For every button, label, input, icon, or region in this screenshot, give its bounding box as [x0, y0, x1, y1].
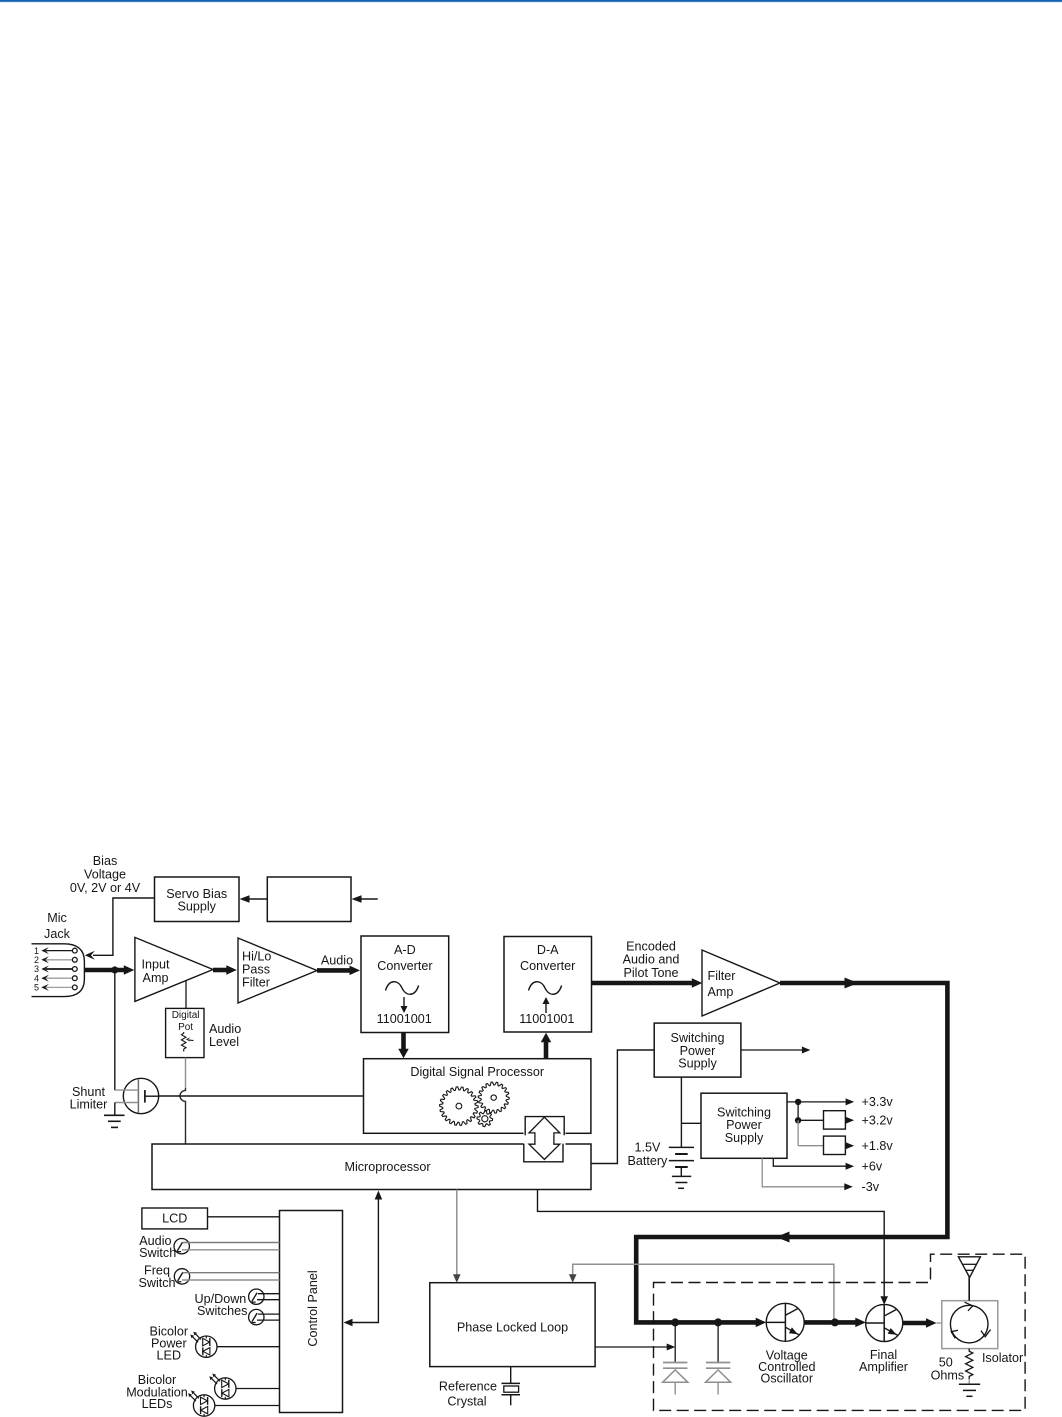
LCD box — [142, 1208, 208, 1229]
mic jack connector — [32, 944, 85, 997]
svg-text:Supply: Supply — [177, 900, 216, 914]
svg-text:Switching: Switching — [671, 1031, 725, 1045]
svg-text:+1.8v: +1.8v — [862, 1139, 894, 1153]
label Bias Voltage — [70, 854, 141, 895]
switch SW4 down — [249, 1309, 264, 1324]
svg-text:Oscillator: Oscillator — [761, 1371, 813, 1385]
thick wire hi/lo filter to A-D converter — [317, 966, 360, 976]
junction node at jack output — [111, 966, 118, 973]
svg-text:Voltage: Voltage — [84, 868, 126, 882]
mic jack pin 4 — [34, 973, 77, 983]
node junction varactor 1 — [671, 1318, 679, 1326]
crystal X1 wire — [510, 1367, 512, 1384]
svg-text:LED: LED — [157, 1348, 182, 1362]
PLL box Phase Locked Loop — [430, 1283, 595, 1367]
wire rail down to +1.8v row — [797, 1120, 799, 1145]
svg-text:Converter: Converter — [377, 959, 432, 973]
svg-text:-3v: -3v — [862, 1180, 880, 1194]
svg-text:Supply: Supply — [678, 1057, 717, 1071]
svg-text:Jack: Jack — [44, 927, 71, 941]
svg-text:Converter: Converter — [520, 959, 575, 973]
svg-text:Audio: Audio — [321, 954, 353, 968]
svg-text:+3.2v: +3.2v — [862, 1114, 894, 1128]
switching power supply 1 box — [654, 1023, 741, 1077]
svg-text:Crystal: Crystal — [447, 1395, 486, 1409]
varactor D2 — [706, 1322, 731, 1394]
svg-text:A-D: A-D — [394, 943, 416, 957]
gear 3 in DSP — [477, 1111, 493, 1127]
thick audio wire jack to input amp — [85, 965, 135, 975]
wire rail down to +3.2v row — [797, 1102, 799, 1120]
wire microprocessor to SPS1 — [591, 1050, 654, 1164]
svg-text:Supply: Supply — [725, 1131, 764, 1145]
svg-text:Switch: Switch — [138, 1276, 175, 1290]
wire shunt limiter to DSP — [159, 1095, 364, 1097]
svg-text:Level: Level — [209, 1035, 239, 1049]
label Encoded Audio and Pilot Tone — [623, 940, 680, 981]
arrowhead on RF wire (left) — [776, 1232, 790, 1243]
circulator circle in isolator — [950, 1302, 990, 1343]
svg-text:Isolator: Isolator — [982, 1351, 1023, 1365]
label Up/Down Switches — [195, 1292, 248, 1318]
varactor D1 — [663, 1322, 688, 1394]
svg-text:Amp: Amp — [143, 971, 169, 985]
svg-text:Hi/Lo: Hi/Lo — [242, 949, 271, 963]
isolator box — [942, 1301, 998, 1349]
svg-text:Ohms: Ohms — [931, 1369, 965, 1383]
svg-text:Audio: Audio — [209, 1022, 241, 1036]
DSP box Digital Signal Processor — [364, 1059, 591, 1134]
dashed RF module boundary — [654, 1254, 1026, 1410]
svg-text:Control Panel: Control Panel — [306, 1270, 320, 1346]
label 1.5V Battery — [627, 1141, 668, 1168]
wire +6v output — [773, 1158, 854, 1169]
bidirectional bus arrow DSP/microprocessor — [529, 1117, 560, 1159]
wire PLL to varactors — [595, 1344, 675, 1351]
transistor VCO — [766, 1303, 804, 1341]
svg-text:Pot: Pot — [178, 1022, 193, 1033]
node on +3.3v rail — [795, 1099, 801, 1105]
mic jack pin 1 — [34, 946, 77, 956]
svg-text:+6v: +6v — [862, 1159, 883, 1173]
wire into unnamed box — [352, 895, 378, 903]
label Audio Switch — [139, 1234, 176, 1260]
thick wire DSP to D-A converter — [541, 1033, 552, 1059]
battery B1 1.5V — [669, 1147, 694, 1176]
VCO feedback wire to PLL — [569, 1264, 834, 1322]
label Final Amplifier — [859, 1348, 908, 1374]
label Freq Switch — [138, 1264, 175, 1290]
wire +3.3v output — [787, 1098, 854, 1105]
LED modulation 1 — [209, 1374, 236, 1400]
wires freq switch to control panel — [182, 1273, 280, 1280]
digital pot box — [166, 1008, 204, 1057]
svg-text:LCD: LCD — [162, 1212, 187, 1226]
wire battery branch to SPS2 — [681, 1122, 701, 1124]
LED modulation 2 — [188, 1391, 215, 1417]
svg-text:Amp: Amp — [708, 985, 734, 999]
unnamed box — [267, 877, 351, 922]
svg-text:Battery: Battery — [627, 1154, 668, 1168]
label Voltage Controlled Oscillator — [758, 1349, 815, 1386]
antenna — [958, 1257, 980, 1301]
svg-text:Input: Input — [141, 958, 170, 972]
gear 2 in DSP — [478, 1082, 509, 1113]
mic jack pin 5 — [34, 983, 77, 993]
svg-text:0V, 2V or 4V: 0V, 2V or 4V — [70, 881, 141, 895]
bias wire servo supply to mic jack — [85, 898, 155, 960]
wire SPS1 output arrow — [741, 1047, 811, 1054]
label Bicolor Power LED — [150, 1325, 189, 1363]
wire modulation LED 2 to control panel — [215, 1405, 280, 1407]
op-amp Filter Amp — [702, 950, 780, 1016]
svg-text:Audio and: Audio and — [623, 953, 680, 967]
microprocessor box — [152, 1144, 591, 1190]
wire unnamed box to servo bias supply — [240, 895, 268, 903]
label Reference Crystal — [439, 1380, 497, 1409]
crystal X1 reference crystal — [502, 1383, 521, 1405]
header rule — [0, 0, 1062, 3]
svg-text:Amplifier: Amplifier — [859, 1360, 908, 1374]
svg-text:+3.3v: +3.3v — [862, 1095, 894, 1109]
svg-text:Power: Power — [726, 1118, 762, 1132]
thick wire input amp to hi/lo filter — [213, 965, 237, 975]
op-amp Input Amp — [135, 937, 213, 1001]
wire modulation LED 1 to control panel — [236, 1388, 280, 1390]
svg-text:Microprocessor: Microprocessor — [344, 1160, 430, 1174]
arrowhead into VCO — [756, 1318, 767, 1328]
wires down switch to control panel — [257, 1314, 280, 1320]
svg-text:Reference: Reference — [439, 1380, 497, 1394]
wire LCD to control panel — [208, 1216, 280, 1218]
svg-text:Digital Signal Processor: Digital Signal Processor — [410, 1065, 544, 1079]
svg-text:Phase Locked Loop: Phase Locked Loop — [457, 1321, 568, 1335]
svg-text:D-A: D-A — [537, 943, 559, 957]
node junction VCO output — [831, 1318, 839, 1326]
svg-text:Limiter: Limiter — [70, 1098, 108, 1112]
switch SW1 audio — [174, 1239, 189, 1254]
node on +3.2v row — [795, 1117, 801, 1123]
wire junction down to shunt limiter — [114, 970, 116, 1090]
svg-text:Switches: Switches — [197, 1304, 247, 1318]
LED bicolor power — [190, 1332, 217, 1358]
wire power LED to control panel — [217, 1346, 280, 1348]
arrowhead on RF wire (right) — [845, 978, 859, 989]
svg-text:Filter: Filter — [242, 975, 270, 989]
label Shunt Limiter — [70, 1085, 108, 1112]
wire input amp to digital pot — [185, 981, 187, 1009]
switch SW2 freq — [174, 1269, 189, 1284]
switch SW3 up — [249, 1289, 264, 1304]
label Mic Jack — [44, 911, 71, 941]
label Audio Level — [209, 1022, 241, 1049]
ground below battery — [672, 1176, 691, 1188]
control panel box — [280, 1211, 343, 1413]
svg-text:Encoded: Encoded — [626, 940, 676, 954]
DSP-microprocessor interface port — [524, 1131, 566, 1148]
svg-text:11001001: 11001001 — [377, 1012, 432, 1026]
wire digital pot to microprocessor (with hop) — [185, 1058, 187, 1088]
label 50 Ohms — [931, 1356, 965, 1383]
mic jack pin 3 — [34, 964, 77, 974]
wires up switch to control panel — [257, 1294, 280, 1300]
svg-text:LEDs: LEDs — [142, 1397, 173, 1411]
resistor 50 ohms — [966, 1349, 973, 1379]
D-A converter box — [504, 937, 592, 1033]
A-D converter box — [361, 936, 449, 1033]
ground below resistor — [959, 1379, 980, 1396]
bidirectional wire control panel / microprocessor — [344, 1191, 383, 1327]
svg-text:50: 50 — [939, 1356, 953, 1370]
servo bias supply box — [155, 877, 240, 922]
transistor shunt limiter — [115, 1078, 159, 1113]
thick wire D-A converter to filter amp — [592, 978, 703, 988]
node junction varactor 2 — [714, 1318, 722, 1326]
filter Hi/Lo Pass Filter — [238, 938, 317, 1003]
svg-text:11001001: 11001001 — [519, 1012, 574, 1026]
svg-text:Digital: Digital — [172, 1010, 200, 1021]
svg-text:Switch: Switch — [139, 1246, 176, 1260]
label Bicolor Modulation LEDs — [126, 1373, 188, 1411]
svg-text:5: 5 — [34, 983, 39, 993]
wire -3v output — [762, 1158, 853, 1190]
transistor final amplifier — [866, 1304, 903, 1341]
svg-text:Mic: Mic — [47, 911, 67, 925]
wire microprocessor to final amplifier — [538, 1190, 889, 1305]
ground below shunt limiter — [104, 1103, 125, 1128]
wire microprocessor to PLL — [453, 1190, 461, 1283]
thick wire final amplifier to isolator — [903, 1318, 942, 1328]
svg-text:1.5V: 1.5V — [634, 1141, 661, 1155]
svg-text:Bias: Bias — [93, 854, 118, 868]
wires audio switch to control panel — [182, 1243, 280, 1250]
svg-text:Filter: Filter — [708, 969, 736, 983]
switching power supply 2 box — [701, 1093, 787, 1158]
svg-text:Pilot Tone: Pilot Tone — [623, 966, 678, 980]
thick wire VCO to final amplifier — [804, 1318, 866, 1328]
thick RF wire filter amp to VCO section — [636, 983, 947, 1322]
wire SPS1 to battery — [680, 1077, 682, 1147]
regulator box +1.8v — [798, 1136, 854, 1154]
gear 1 in DSP — [440, 1087, 479, 1126]
thick wire A-D converter to DSP — [398, 1033, 409, 1059]
regulator box +3.2v — [798, 1111, 854, 1129]
mic jack pin 2 — [34, 955, 77, 965]
